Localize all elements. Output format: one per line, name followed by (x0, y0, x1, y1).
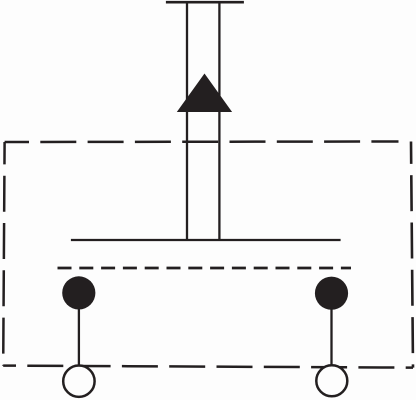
wire: right rod line (218, 2, 220, 240)
left open wheel (63, 366, 94, 397)
top terminal bar (166, 1, 244, 4)
direction arrow (filled triangle pointing up) (177, 74, 232, 113)
right filled ball (315, 277, 348, 310)
wire: left rod line (186, 2, 188, 240)
wire: left roller stem (78, 293, 80, 365)
platform bar (71, 239, 341, 241)
dashed enclosure bottom edge (3, 366, 413, 368)
dashed enclosure left edge (3, 142, 4, 366)
right open wheel (316, 365, 347, 396)
dashed enclosure right edge (411, 142, 413, 368)
dashed enclosure top edge (5, 140, 399, 143)
left filled ball (62, 276, 95, 309)
wire: right roller stem (330, 293, 332, 364)
short-dash level line (58, 267, 352, 270)
